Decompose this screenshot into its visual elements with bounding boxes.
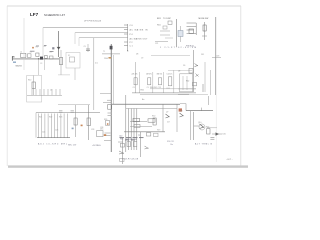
wire drop from bus B (74, 33, 76, 44)
capacitor C33 (210, 137, 214, 139)
house keeping box outline (27, 76, 42, 103)
svg-text:K1: K1 (68, 55, 70, 57)
fuse F1 input (12, 56, 22, 67)
wire H121 (130, 120, 147, 122)
component marks below band (127, 132, 158, 157)
resistor R30 column (74, 105, 77, 137)
svg-text:C8: C8 (133, 87, 135, 89)
wire tick above H110 (201, 108, 203, 111)
svg-text:GND: GND (140, 89, 145, 91)
svg-text:P/N 8-50: P/N 8-50 (186, 45, 195, 47)
connector P1 pin labels (127, 25, 148, 53)
bundle vertical wires center bottom (126, 95, 137, 152)
svg-text:R52: R52 (186, 80, 189, 82)
wire cross H54 (102, 53, 120, 55)
wire H108 (126, 108, 177, 110)
secondary box top right part (58, 104, 90, 106)
resistor R31 column (72, 105, 91, 140)
capacitor C22 mark (59, 111, 62, 112)
svg-text:D11: D11 (201, 54, 204, 56)
svg-text:C5: C5 (84, 46, 86, 48)
svg-text:1M 5%: 1M 5% (157, 74, 163, 76)
component band group T2 (136, 54, 190, 94)
wire top bus A (43, 27, 128, 29)
capacitor C2 (32, 47, 47, 59)
wire vertical r3 (210, 70, 212, 95)
svg-text:R39: R39 (104, 119, 107, 121)
page right edge (240, 6, 242, 166)
diode CR1 on vertical (57, 31, 61, 57)
comb base wire (37, 137, 70, 139)
relay box K1 (66, 53, 80, 69)
svg-text:1M 5%: 1M 5% (146, 74, 152, 76)
svg-text:C9: C9 (141, 58, 143, 60)
svg-text:1 4/LF7-09-08: 1 4/LF7-09-08 (122, 158, 139, 160)
wire H102 stub (103, 101, 111, 103)
svg-text:R44: R44 (167, 88, 170, 90)
wire band bottom (132, 92, 196, 94)
svg-text:C38: C38 (100, 127, 103, 129)
secondary box left edge (35, 113, 37, 138)
wire H93 stub (100, 93, 111, 95)
chain label smudges (30, 46, 54, 52)
main bus vertical (110, 44, 112, 152)
wire corner left of heatsink (180, 104, 186, 111)
column rule (215, 17, 217, 162)
left faint rule (23, 18, 25, 70)
second bus vertical (113, 55, 115, 104)
wire V208 (208, 96, 210, 105)
svg-text:Q10: Q10 (198, 122, 201, 124)
page bottom shadow (8, 165, 248, 167)
resistor R5 vertical (59, 50, 62, 75)
capacitor block C12 (167, 70, 174, 93)
capacitor C28 (91, 129, 103, 136)
wire top bus B (75, 32, 128, 34)
svg-text:S1: S1 (44, 46, 46, 48)
page top edge (7, 5, 241, 7)
svg-text:C24: C24 (42, 132, 45, 134)
wire drop D2 (44, 59, 46, 70)
wire band bottom2 (178, 94, 208, 96)
svg-text:R1: R1 (36, 46, 38, 48)
svg-text:J4: J4 (50, 90, 52, 92)
svg-text:L1: L1 (20, 52, 22, 54)
svg-text:C9: C9 (147, 87, 149, 89)
svg-text:+5V REG: +5V REG (92, 145, 101, 147)
svg-text:R49: R49 (157, 130, 160, 132)
dense label band center bottom (119, 135, 140, 141)
switch SW1 blob (40, 46, 46, 60)
resistor R46 (148, 119, 155, 122)
svg-text:ALT TRML B: ALT TRML B (195, 143, 213, 146)
wire drop from bus C (78, 38, 80, 46)
resistor R1 (36, 46, 40, 56)
wire band upper shelf (168, 70, 192, 72)
label band smudge dashes (120, 138, 144, 140)
svg-text:R55: R55 (206, 126, 209, 128)
svg-text:C12 2n: C12 2n (167, 74, 173, 76)
resistor R2 (49, 47, 54, 59)
resistor R47 (134, 124, 140, 127)
page left edge (6, 6, 8, 166)
wire V190 (190, 111, 192, 140)
wire top of band (150, 88, 196, 90)
wire H110 (186, 110, 213, 112)
resistor R55 (206, 126, 210, 134)
svg-text:R58 C31: R58 C31 (167, 141, 174, 143)
connector P1 ladder (124, 24, 128, 51)
varistor RV1 on bus (110, 46, 113, 50)
resistor R50 (152, 116, 156, 125)
label warm (104, 57, 111, 60)
secondary box top edge (36, 112, 100, 114)
resistor network RN2 (146, 72, 153, 93)
svg-text:LF7 P/N 8-50-03: LF7 P/N 8-50-03 (84, 21, 102, 23)
svg-text:AC MAINS IN: AC MAINS IN (130, 29, 149, 32)
svg-text:R60 R61 C41: R60 R61 C41 (126, 139, 137, 141)
connector pins strip (27, 89, 62, 95)
wire long H104 (112, 103, 180, 105)
wire H89 (178, 88, 196, 90)
svg-text:C3: C3 (40, 63, 42, 65)
resistor network RN1 (132, 72, 140, 93)
transistor Q5 column (186, 50, 199, 92)
svg-text:LF7: LF7 (30, 12, 39, 17)
transistor Q7 (157, 104, 170, 132)
capacitor C30 at bus (105, 100, 111, 125)
label mid right small (167, 141, 174, 146)
lower right column parts (118, 138, 124, 164)
thermistor RT1 (179, 108, 182, 111)
svg-text:C40: C40 (119, 135, 122, 137)
wire mains chain (13, 58, 59, 60)
wire H131 (124, 131, 165, 133)
svg-text:C18: C18 (216, 55, 219, 57)
labels on comb (39, 117, 62, 134)
svg-text:MAINS: MAINS (16, 64, 23, 67)
resistor R71 (202, 22, 207, 40)
svg-text:22k 1%: 22k 1% (132, 74, 138, 76)
wire drop from bus A (42, 28, 44, 58)
wire V203 (202, 84, 204, 92)
bus lower components (100, 128, 111, 140)
resistor R10 in box (28, 76, 35, 96)
svg-text:SEC 12V: SEC 12V (68, 144, 77, 146)
wire mid vertical W94 (93, 38, 95, 110)
svg-text:R50: R50 (152, 116, 155, 118)
svg-text:T2: T2 (138, 135, 140, 137)
svg-text:T1: T1 (103, 51, 105, 53)
svg-text:D20: D20 (223, 133, 226, 135)
svg-text:R23: R23 (59, 117, 62, 119)
transistor Q8 (177, 104, 184, 132)
wire H126 (130, 126, 152, 128)
svg-text:MODE SW: MODE SW (199, 18, 209, 20)
capacitor C5 (84, 44, 91, 52)
svg-text:U2: U2 (178, 70, 180, 72)
wire right vertical V1 (215, 17, 217, 95)
junction node N1 (38, 58, 39, 59)
wire H94 right (140, 93, 189, 95)
svg-text:10n: 10n (170, 144, 173, 146)
svg-text:Q8: Q8 (180, 111, 182, 113)
svg-text:C28: C28 (91, 129, 94, 131)
wire K1 down (74, 68, 76, 80)
svg-text:ADJ 10-KHZ MHz: ADJ 10-KHZ MHz (38, 143, 67, 146)
svg-text:C21: C21 (155, 43, 158, 45)
opto U2 box (178, 65, 193, 92)
svg-text:C25: C25 (55, 130, 58, 132)
capacitor C1 (27, 51, 31, 57)
svg-text:R22: R22 (49, 117, 52, 119)
comb teeth wires (39, 114, 68, 138)
svg-text:4k7: 4k7 (167, 122, 170, 124)
connector J2 display cluster (155, 18, 183, 47)
mode switch S1 (187, 18, 209, 35)
diode D20 (212, 132, 226, 135)
transistor Q10 bottom right (194, 112, 205, 140)
marks left of bus lower (100, 119, 107, 129)
capacitor C23 mark (71, 111, 74, 112)
wire drop D1 (38, 59, 40, 75)
resistor network RN3 (157, 72, 164, 93)
svg-text:C1: C1 (30, 51, 32, 53)
svg-text:- LF7 -: - LF7 - (226, 159, 233, 161)
svg-text:D8: D8 (136, 54, 138, 56)
wire stub right (212, 57, 221, 59)
svg-text:R10: R10 (28, 80, 31, 82)
svg-text:R2: R2 (50, 51, 52, 53)
filter L1 (20, 52, 26, 58)
svg-text:Ex: Ex (142, 99, 144, 101)
svg-text:D9: D9 (183, 65, 185, 67)
svg-text:Q7: Q7 (166, 112, 168, 114)
resistor R45 (133, 118, 140, 121)
wire shelf (58, 74, 70, 76)
svg-text:TO DISP: TO DISP (163, 18, 172, 20)
svg-text:SCHEMATIC LF7: SCHEMATIC LF7 (44, 13, 66, 17)
wire vertical r2 (204, 62, 206, 92)
svg-text:AC MAINS OUT: AC MAINS OUT (130, 37, 149, 40)
wire top bus C (79, 37, 128, 39)
svg-text:R21: R21 (39, 117, 42, 119)
svg-text:R63: R63 (120, 139, 123, 141)
wire H127 right (207, 127, 217, 129)
